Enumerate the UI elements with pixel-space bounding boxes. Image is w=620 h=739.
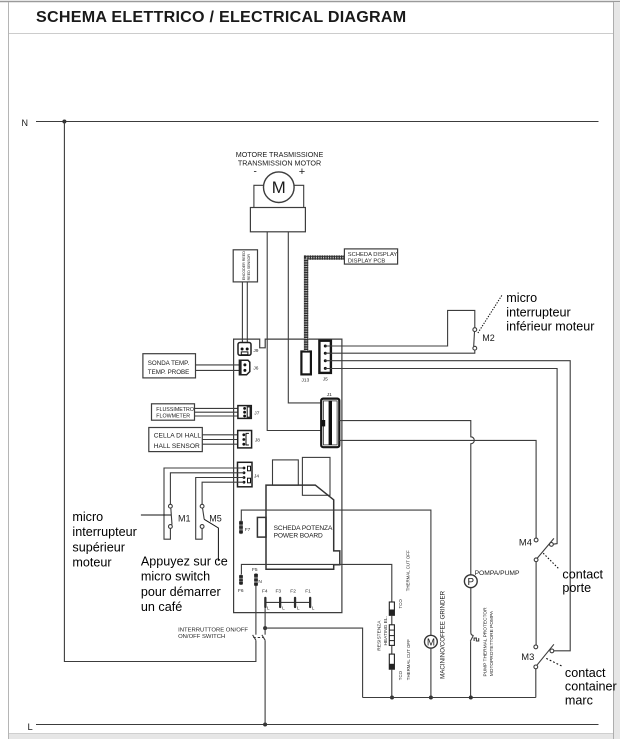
wire sonda to J6 pin1 <box>196 364 245 366</box>
svg-text:F6: F6 <box>238 588 244 594</box>
svg-text:J8: J8 <box>255 438 260 444</box>
junction grinder/bus <box>429 696 433 700</box>
connector J9 <box>238 343 251 356</box>
motor gearbox <box>250 208 305 232</box>
micro switch M1 <box>169 504 173 528</box>
connector J6 <box>239 360 249 375</box>
motor bracket <box>254 185 304 207</box>
svg-text:J1: J1 <box>327 392 332 398</box>
svg-text:TCO: TCO <box>398 599 403 609</box>
leader from M5 to Appuyez text <box>204 519 218 561</box>
junction L / on-off switch <box>263 723 267 727</box>
svg-text:DISPLAY PCB: DISPLAY PCB <box>348 259 386 265</box>
svg-text:J7: J7 <box>254 411 259 417</box>
on/off switch right pole <box>264 628 266 635</box>
svg-text:J13: J13 <box>302 377 310 383</box>
wire J4 pin2 to M1 top <box>170 473 244 505</box>
cella di hall box <box>149 428 203 452</box>
svg-text:THERMAL CUT OFF: THERMAL CUT OFF <box>406 639 411 680</box>
wire J5 pin1 to M2 top <box>325 310 475 346</box>
contact switch M4 <box>534 538 554 562</box>
fuse F7 <box>239 521 243 535</box>
micro switch M2 <box>473 328 477 350</box>
relay block A <box>273 460 299 485</box>
wire encoder to J9 pin1 <box>241 282 243 349</box>
relay block B <box>302 457 330 495</box>
svg-text:SONDA TEMP.: SONDA TEMP. <box>148 360 190 367</box>
svg-text:PUMP THERMAL PROTECTOR: PUMP THERMAL PROTECTOR <box>483 607 489 677</box>
svg-text:F2: F2 <box>290 589 296 595</box>
encoder reed sensor box <box>233 250 257 282</box>
svg-text:N: N <box>22 118 29 128</box>
wire N to on/off switch left pole <box>64 122 256 662</box>
svg-text:TEMP. PROBE: TEMP. PROBE <box>148 369 190 376</box>
on/off switch mechanical link (dashed) <box>253 637 263 639</box>
wire encoder to J9 pin2 <box>246 282 248 349</box>
thermal cut off TCO2 <box>389 654 394 669</box>
fuse F2 <box>294 597 296 608</box>
svg-text:TCO: TCO <box>398 670 403 680</box>
bus bottom <box>363 697 536 699</box>
wire junction to heater branch <box>265 628 363 697</box>
pump thermal protector <box>470 632 478 641</box>
wire J5 pin2 to M2 bottom <box>325 350 475 353</box>
svg-text:ON/OFF SWITCH: ON/OFF SWITCH <box>178 634 225 640</box>
heating element resistor <box>389 625 394 646</box>
svg-text:J4: J4 <box>254 474 259 480</box>
wire cella to J8 pin2 <box>202 439 244 441</box>
fuse bus F1-F4 <box>265 601 310 603</box>
junction heater/bus <box>390 696 394 700</box>
fuse F6 <box>239 575 243 585</box>
svg-text:THERMAL CUT OFF: THERMAL CUT OFF <box>406 550 411 591</box>
wire J5 pin3 to M3 right contact <box>325 361 570 651</box>
junction N / left wire <box>62 120 66 124</box>
fuse F5 <box>254 573 258 586</box>
svg-text:N: N <box>258 579 262 585</box>
svg-text:MOTOPROTETTORE POMPA: MOTOPROTETTORE POMPA <box>489 610 495 676</box>
svg-text:P: P <box>468 577 475 588</box>
fuse F1 <box>309 597 311 608</box>
flussimetro box <box>152 404 195 420</box>
svg-text:L: L <box>28 721 33 732</box>
fuse F4 <box>264 597 266 608</box>
svg-text:F1: F1 <box>305 589 311 595</box>
svg-text:FLUSSIMETRO: FLUSSIMETRO <box>156 407 194 413</box>
power board left tab <box>257 517 266 537</box>
connector J8 <box>238 431 252 448</box>
wire on/off right pole to L <box>264 640 266 724</box>
svg-text:-: - <box>254 167 257 178</box>
svg-text:F7: F7 <box>245 527 251 533</box>
svg-text:POWER BOARD: POWER BOARD <box>274 533 323 540</box>
connector J7 <box>238 406 251 419</box>
wire TCO2 to bus <box>391 669 393 697</box>
wire grinder to bus <box>430 648 432 697</box>
svg-text:SCHEMA ELETTRICO / ELECTRICAL: SCHEMA ELETTRICO / ELECTRICAL DIAGRAM <box>36 8 406 26</box>
svg-text:M1: M1 <box>178 514 191 524</box>
wire F7 to grinder <box>241 510 431 635</box>
sonda temp box <box>143 354 196 378</box>
svg-text:FLOWMETER: FLOWMETER <box>156 414 190 420</box>
svg-text:L: L <box>267 606 270 612</box>
connector J4 <box>238 462 253 487</box>
display pcb box <box>344 249 397 264</box>
grinder motor <box>425 635 438 648</box>
svg-text:+: + <box>299 166 305 178</box>
on/off switch left pole blade <box>253 635 256 640</box>
svg-text:L: L <box>282 606 285 612</box>
svg-text:M3: M3 <box>521 651 534 662</box>
wire J4 pin4 to M5 top <box>202 482 244 504</box>
svg-text:HALL SENSOR: HALL SENSOR <box>154 443 200 450</box>
svg-text:HEATING EL.: HEATING EL. <box>383 616 389 646</box>
svg-text:REED SENSOR: REED SENSOR <box>247 254 251 281</box>
wire J1 to pump <box>339 421 474 575</box>
wire TCO1 to resistor <box>391 615 393 625</box>
thermal cut off TCO1 <box>389 602 394 615</box>
wire N line <box>36 121 599 123</box>
svg-text:J5: J5 <box>323 377 328 383</box>
svg-text:CELLA DI HALL: CELLA DI HALL <box>154 433 202 440</box>
svg-text:SCHEDA DISPLAY: SCHEDA DISPLAY <box>348 252 398 258</box>
svg-text:F4: F4 <box>262 588 268 594</box>
wire motor right terminal to J1 <box>288 232 321 403</box>
leader from text to M1 <box>141 514 171 516</box>
svg-text:M2: M2 <box>482 333 495 343</box>
connector J5 <box>319 341 331 373</box>
on/off switch right pole blade <box>262 635 265 640</box>
page chrome <box>0 1 620 3</box>
motor M transmission motor <box>264 172 295 203</box>
wire flussimetro to J7 pin1 <box>195 407 245 409</box>
fuse F3 <box>279 597 281 608</box>
wire cella to J8 pin3 <box>202 443 244 445</box>
svg-text:SCHEDA POTENZA: SCHEDA POTENZA <box>274 525 333 532</box>
leader M3 to contact container marc <box>546 658 562 666</box>
contact switch M3 <box>534 644 554 669</box>
wire flussimetro to J7 pin2 <box>195 411 245 413</box>
svg-text:F5: F5 <box>252 567 258 573</box>
svg-text:INTERRUTTORE ON/OFF: INTERRUTTORE ON/OFF <box>178 628 248 634</box>
wire J1 to M4 top (with hop over pump wire) <box>339 440 536 538</box>
wire L line <box>36 724 599 726</box>
wire F4 to junction <box>264 608 266 628</box>
svg-text:POMPA/PUMP: POMPA/PUMP <box>475 570 520 577</box>
power board PCB shape <box>266 485 340 569</box>
svg-text:L: L <box>312 606 315 612</box>
micro switch M5 <box>200 504 204 528</box>
leader M4 to contact porte <box>543 553 558 568</box>
connector J1 <box>321 399 339 448</box>
wire resistor to TCO2 <box>391 645 393 654</box>
wire flussimetro to J7 pin3 <box>195 415 245 417</box>
svg-text:L: L <box>297 606 300 612</box>
svg-text:M: M <box>272 178 286 197</box>
wire M3 bottom to bus <box>535 669 537 698</box>
wire cella to J8 pin1 <box>202 434 244 436</box>
svg-text:F3: F3 <box>276 589 282 595</box>
wire J4 pin1 to M1 bottom <box>164 468 244 539</box>
junction pump/bus <box>469 696 473 700</box>
wire motor left terminal to J1 <box>267 232 321 431</box>
svg-text:RESISTENZA: RESISTENZA <box>376 620 382 651</box>
svg-text:J9: J9 <box>253 348 258 354</box>
wire J4 pin3 to M5 bottom <box>196 478 244 540</box>
junction on/off node <box>263 626 267 630</box>
wire sonda to J6 pin2 <box>196 369 245 371</box>
svg-text:M5: M5 <box>209 514 222 524</box>
wire M4 bottom to M3 top <box>535 562 537 645</box>
wire protector to bus <box>470 641 472 697</box>
svg-text:TRANSMISSION MOTOR: TRANSMISSION MOTOR <box>238 159 321 168</box>
connector J13 <box>301 352 311 375</box>
svg-text:M: M <box>427 637 435 648</box>
power board outline <box>234 339 342 612</box>
wire pump to thermal protector <box>470 588 472 633</box>
svg-text:ENCODER REED: ENCODER REED <box>242 251 246 280</box>
leader M2 to text <box>478 295 502 333</box>
svg-text:J6: J6 <box>253 366 258 372</box>
wire F6 to heater chain <box>241 564 391 602</box>
svg-text:M4: M4 <box>519 537 532 548</box>
wire F5 to on/off switch <box>255 586 257 635</box>
display cable (shielded) <box>306 258 344 351</box>
wire J5 pin4 to M4 right contact <box>325 369 557 545</box>
svg-text:MACININO/COFFEE GRINDER: MACININO/COFFEE GRINDER <box>440 590 447 679</box>
